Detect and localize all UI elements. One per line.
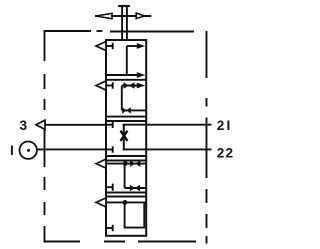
position 4 lower check bowtie [130, 185, 140, 191]
position 5 blocked port [106, 225, 113, 231]
position 1 upper flow arrowhead [137, 43, 145, 49]
position 1 lower flow wire [106, 74, 139, 76]
exhaust arrow left [96, 13, 112, 18]
pilot triangle position 1 [96, 42, 106, 51]
position 4 upper check bowtie [130, 160, 140, 166]
exhaust stem double line [122, 6, 127, 40]
exhaust flow line [95, 15, 151, 17]
position divider line 2b [106, 120, 146, 122]
position 2 upper flow wire [122, 85, 139, 87]
position 3 loop top wire [123, 124, 147, 126]
port 1 source dot [27, 149, 30, 152]
position 2 upper flow arrowhead [137, 83, 145, 89]
position 3 loop left wire [123, 125, 125, 150]
port 1 source circle [20, 142, 37, 159]
svg-text:3: 3 [20, 118, 28, 133]
position 2 blocked port [106, 82, 113, 88]
svg-text:2I: 2I [217, 118, 233, 133]
pilot triangle position 4 [96, 159, 106, 168]
position 5 loop wire [125, 202, 145, 227]
position 1 branch wire [126, 46, 128, 75]
position 2 branch wire [121, 86, 123, 111]
position 3 closed X [121, 131, 128, 141]
position 4 upper flow wire [106, 163, 146, 165]
position divider line 4a [106, 192, 146, 194]
exhaust crossbar [118, 5, 130, 7]
position divider line 2a [106, 116, 146, 118]
position 2 lower flow wire [122, 109, 146, 111]
position divider line 3b [106, 160, 146, 162]
port 3 triangle [36, 120, 45, 129]
position 5 upper flow wire [106, 201, 146, 203]
pilot triangle position 2 [96, 81, 106, 90]
port 21 wire [146, 124, 211, 126]
port 3 wire [45, 124, 106, 126]
position 1 blocked port [106, 43, 113, 49]
position 5 junction dot [123, 200, 128, 205]
enclosure dashed border bottom [44, 241, 196, 243]
position 1 lower flow arrowhead [137, 72, 145, 78]
position 1 upper flow wire [127, 45, 139, 47]
position 3 upper blocked port [106, 122, 113, 128]
position divider line 4b [106, 196, 146, 198]
position 3 loop bottom wire [123, 148, 147, 150]
position 4 lower flow wire [125, 187, 147, 189]
position 4 junction dot [123, 161, 128, 166]
valve body outline [106, 40, 146, 236]
enclosure dashed border top [45, 30, 195, 33]
enclosure dashed border right [206, 31, 208, 244]
position 2 upper check bowtie [124, 82, 135, 88]
pilot triangle position 5 [96, 198, 106, 207]
svg-text:22: 22 [217, 146, 235, 161]
port 1 wire [37, 148, 106, 150]
position 4 blocked port [106, 184, 113, 191]
exhaust arrow right [136, 13, 145, 19]
enclosure dashed border left [44, 30, 46, 242]
svg-text:I: I [10, 143, 14, 158]
position divider line 3a [106, 155, 146, 157]
port 22 wire [146, 148, 211, 150]
position 2 lower check bowtie [122, 107, 131, 113]
position 4 branch wire [124, 164, 126, 188]
position divider line 1 [106, 79, 146, 81]
position 3 lower blocked port [106, 146, 113, 152]
